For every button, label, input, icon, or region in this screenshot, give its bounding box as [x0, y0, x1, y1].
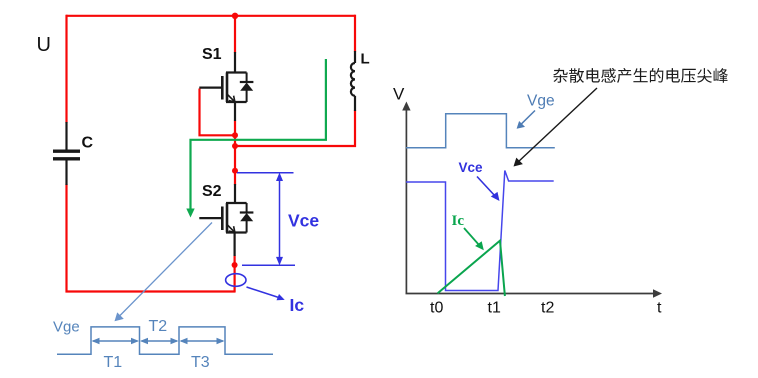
- junction: S2 drain node: [232, 168, 238, 174]
- waveform: Ic (chart, green) collector current ramp: [438, 241, 505, 296]
- wire: load branch horizontal (red): [235, 145, 356, 147]
- arrow: ellipse to Ic label: [247, 287, 285, 300]
- transistor S1 (switch with body diode): [199, 52, 253, 121]
- svg-text:T2: T2: [149, 318, 168, 335]
- waveform: Vge gate pulses: [57, 327, 273, 354]
- junction: load branch node: [232, 143, 238, 149]
- wire: top rail (red): [66, 15, 355, 17]
- axis: horizontal t axis: [406, 289, 663, 297]
- wire: green gate-drive path with arrow to S2 gate: [186, 59, 326, 218]
- arrow: Vge label pointer: [517, 111, 535, 129]
- wire: center leg bottom (red, S2 source to bottom rail): [234, 256, 236, 293]
- node: Vce measurement dimension (blue): [237, 173, 295, 266]
- svg-text:t: t: [657, 300, 662, 317]
- arrow: Ic label pointer: [464, 228, 484, 250]
- wire: center leg top (red, top rail to S1 drain): [234, 16, 236, 53]
- svg-text:C: C: [82, 135, 94, 152]
- arrow: annotation pointer (black): [514, 88, 598, 167]
- dimension arrow T3: [180, 338, 225, 344]
- svg-text:Vge: Vge: [527, 93, 555, 110]
- wire: bottom rail (red): [66, 290, 236, 292]
- svg-text:t1: t1: [488, 300, 501, 317]
- svg-text:S2: S2: [202, 183, 222, 200]
- svg-text:t0: t0: [430, 300, 443, 317]
- svg-text:t2: t2: [541, 300, 554, 317]
- waveform: Vce (chart, blue) with turn-off voltage spike: [406, 171, 554, 291]
- dimension arrow T2: [140, 338, 179, 344]
- wire: center leg middle (red, S1 source to S2 drain): [234, 121, 236, 186]
- wire: S1 gate loop (red): [200, 89, 234, 136]
- arrow: Vce label pointer: [477, 177, 500, 202]
- svg-text:U: U: [37, 34, 51, 56]
- svg-text:Ic: Ic: [290, 295, 305, 315]
- svg-text:Ic: Ic: [452, 213, 465, 229]
- junction: S2 source node: [232, 262, 238, 268]
- svg-text:S1: S1: [202, 46, 222, 63]
- svg-text:T1: T1: [104, 354, 123, 371]
- label: Chinese annotation (voltage spike caused by stray inductance), drawn as paths: [553, 68, 728, 83]
- dimension arrow T1: [92, 338, 140, 344]
- axis: vertical V axis: [402, 102, 410, 294]
- wire: right rail upper (red, to inductor): [354, 15, 356, 52]
- inductor L: [351, 51, 355, 111]
- arrowhead: Vce dimension bottom: [276, 257, 283, 266]
- svg-text:L: L: [361, 51, 370, 68]
- svg-text:Vce: Vce: [288, 211, 319, 231]
- arrowhead: Vce dimension top: [276, 173, 283, 182]
- svg-text:T3: T3: [191, 354, 210, 371]
- node: Ic current marker ellipse: [226, 274, 246, 287]
- arrow: thin annotation from S2 gate to Vge timing waveform: [115, 223, 213, 322]
- svg-text:Vce: Vce: [459, 160, 484, 175]
- wire: left rail upper (red, to capacitor): [65, 15, 67, 123]
- capacitor C: [53, 122, 80, 185]
- junction: top rail / center leg: [232, 13, 238, 19]
- transistor S2 (switch with body diode): [199, 184, 253, 256]
- wire: left rail lower (red, from capacitor): [65, 184, 67, 293]
- wire: right rail lower (red, from inductor to load branch): [354, 110, 356, 147]
- waveform: Vge (chart, steel blue): [406, 114, 555, 148]
- junction: gate loop node: [232, 132, 238, 138]
- svg-text:Vge: Vge: [53, 319, 80, 336]
- svg-text:V: V: [393, 85, 405, 104]
